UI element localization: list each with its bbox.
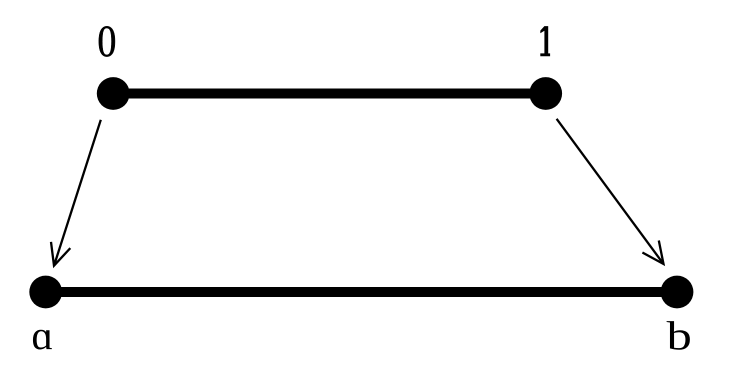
node a bbox=[29, 276, 62, 309]
arrow 0 to a (shaft) bbox=[51, 120, 101, 266]
edge 0-1 (top, thick) bbox=[113, 88, 546, 98]
label 0 bbox=[99, 26, 115, 56]
label 1 bbox=[540, 26, 550, 56]
node 1 bbox=[529, 77, 562, 110]
label a bbox=[33, 330, 52, 350]
arrow 1 to b (shaft) bbox=[557, 119, 664, 264]
node b bbox=[661, 276, 694, 309]
node 0 bbox=[97, 77, 130, 110]
edge a-b (bottom, thick) bbox=[46, 287, 677, 297]
label b bbox=[667, 321, 690, 350]
